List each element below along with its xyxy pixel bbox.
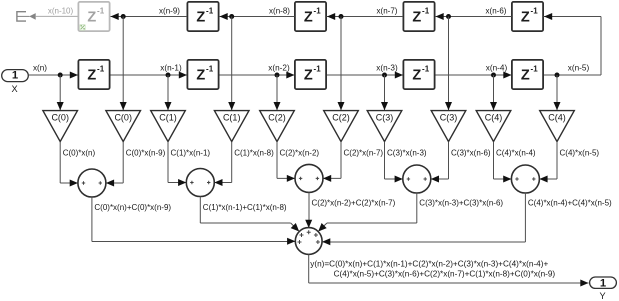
label C(0)*x(n-9)	[126, 149, 166, 158]
sum block S2 (C(1) pair)	[186, 169, 214, 197]
svg-text:x(n-1): x(n-1)	[160, 64, 182, 73]
svg-text:C(4)*x(n-4): C(4)*x(n-4)	[496, 149, 536, 158]
wire S5 -> big sum (right port)	[322, 193, 525, 245]
wire x(n): inport -> B-col1, junction	[29, 72, 78, 79]
wire C(0)*x(n-9) -> sum	[106, 142, 123, 187]
wire x(n-5): B-col5 output -> up riser -> T-col5 input	[544, 13, 602, 75]
svg-text:C(3): C(3)	[376, 112, 394, 122]
wire x(n-10) (grey)	[36, 15, 78, 17]
svg-text:Z: Z	[304, 9, 313, 25]
wire x(n-4): B-col4 -> B-col5, junction	[435, 72, 512, 79]
label x(n-9)	[159, 7, 180, 16]
svg-text:x(n-10): x(n-10)	[48, 7, 74, 16]
svg-text:C(4)*x(n-5): C(4)*x(n-5)	[560, 149, 600, 158]
svg-text:C(3)*x(n-6): C(3)*x(n-6)	[451, 149, 491, 158]
label C(2)*x(n-7)	[344, 149, 384, 158]
inport 1 (X)	[2, 70, 29, 82]
label x(n-3)	[376, 64, 398, 73]
sum block S5 (C(4) pair)	[511, 165, 539, 193]
svg-text:-1: -1	[314, 7, 322, 16]
unit delay Z^-1 (bottom row col 1)	[78, 60, 109, 89]
unit delay Z^-1 (bottom row col 2)	[187, 60, 218, 89]
big sum block (5 inputs)	[295, 228, 322, 255]
label y(n) line 1	[310, 260, 548, 269]
unit delay Z^-1 (bottom row col 3)	[295, 60, 326, 89]
svg-text:C(2): C(2)	[332, 112, 350, 122]
tap wire to gain C(0) (first)	[57, 75, 64, 110]
svg-text:-1: -1	[206, 65, 214, 74]
svg-text:C(1): C(1)	[223, 112, 241, 122]
svg-text:Z: Z	[196, 9, 205, 25]
wire x(n-1): B-col1 -> B-col2, junction	[110, 72, 187, 79]
label C(1)*x(n-1)+C(1)*x(n-8)	[203, 203, 287, 212]
label C(0)*x(n)+C(0)*x(n-9)	[94, 203, 171, 212]
wire C(4)*x(n-4) -> sum	[494, 142, 512, 183]
svg-text:Z: Z	[304, 67, 313, 83]
junction x(n-5)	[555, 73, 560, 78]
tap wire to gain C(1) (second)	[228, 17, 235, 111]
svg-text:Z: Z	[521, 9, 530, 25]
label x(n-8)	[269, 7, 290, 16]
unit delay Z^-1 (bottom row col 5)	[512, 60, 543, 89]
svg-text:Z: Z	[521, 67, 530, 83]
label x(n-7)	[377, 7, 398, 16]
svg-text:1: 1	[600, 277, 606, 289]
tap wire to gain C(3) (first)	[381, 75, 388, 110]
svg-text:C(1)*x(n-1): C(1)*x(n-1)	[171, 149, 211, 158]
gain C(3) (first)	[367, 111, 402, 142]
label C(4)*x(n-4)+C(4)*x(n-5)	[528, 198, 612, 207]
svg-text:C(1): C(1)	[159, 112, 177, 122]
svg-text:C(0)*x(n): C(0)*x(n)	[63, 149, 96, 158]
svg-text:C(0)*x(n-9): C(0)*x(n-9)	[126, 149, 166, 158]
wire S1 -> big sum (left port)	[92, 197, 295, 245]
label x(n-4)	[486, 64, 508, 73]
wire C(1)*x(n-1) -> sum	[168, 142, 186, 186]
svg-text:-1: -1	[97, 65, 105, 74]
wire S4 -> big sum (upper-right port)	[318, 193, 417, 232]
wire S3 -> big sum (top port)	[305, 192, 312, 228]
svg-text:Z: Z	[412, 67, 421, 83]
svg-text:x(n-8): x(n-8)	[269, 7, 290, 16]
svg-text:Z: Z	[87, 9, 96, 25]
svg-text:C(1)*x(n-1)+C(1)*x(n-8): C(1)*x(n-1)+C(1)*x(n-8)	[203, 203, 287, 212]
svg-text:Z: Z	[196, 67, 205, 83]
unit delay Z^-1 (top row col 5)	[512, 2, 543, 31]
label Y	[600, 291, 606, 301]
label C(4)*x(n-4)	[496, 149, 536, 158]
outport 1 (Y)	[590, 277, 617, 289]
gain C(2) (first)	[260, 111, 295, 142]
unit delay Z^-1 x(n-10) (commented out, grey)	[78, 2, 109, 31]
svg-text:y(n)=C(0)*x(n)+C(1)*x(n-1)+C(2: y(n)=C(0)*x(n)+C(1)*x(n-1)+C(2)*x(n-2)+C…	[310, 260, 548, 269]
svg-text:C(4): C(4)	[485, 112, 503, 122]
unit delay Z^-1 (top row col 3)	[295, 2, 326, 31]
svg-text:x(n-7): x(n-7)	[377, 7, 398, 16]
unit delay Z^-1 (top row col 2)	[187, 2, 218, 31]
svg-text:C(3): C(3)	[440, 112, 458, 122]
svg-text:-1: -1	[314, 65, 322, 74]
svg-text:-1: -1	[531, 65, 539, 74]
svg-text:C(4)*x(n-5)+C(3)*x(n-6)+C(2)*x: C(4)*x(n-5)+C(3)*x(n-6)+C(2)*x(n-7)+C(1)…	[334, 269, 556, 278]
svg-text:C(3)*x(n-3)+C(3)*x(n-6): C(3)*x(n-3)+C(3)*x(n-6)	[419, 198, 503, 207]
gain C(1) (second)	[214, 111, 249, 142]
label C(1)*x(n-1)	[171, 149, 211, 158]
unit delay Z^-1 (top row col 4)	[403, 2, 434, 31]
tap wire to gain C(0) (second)	[120, 17, 127, 111]
wire x(n-2): B-col2 -> B-col3, junction	[219, 72, 295, 79]
tap wire to gain C(4) (second)	[554, 75, 561, 110]
svg-text:Z: Z	[412, 9, 421, 25]
svg-text:x(n-6): x(n-6)	[486, 7, 507, 16]
gain C(3) (second)	[431, 111, 466, 142]
wire x(n-3): B-col3 -> B-col4, junction	[327, 72, 404, 79]
svg-text:C(4): C(4)	[548, 112, 566, 122]
wire C(3)*x(n-3) -> sum	[385, 142, 403, 183]
svg-text:1: 1	[12, 70, 18, 82]
label C(3)*x(n-6)	[451, 149, 491, 158]
svg-text:x(n-9): x(n-9)	[159, 7, 180, 16]
sum block S3 (C(2) pair)	[295, 164, 323, 192]
label y(n) line 2	[334, 269, 556, 278]
svg-text:x(n-2): x(n-2)	[268, 64, 290, 73]
gain C(0) (second)	[106, 111, 141, 142]
wire C(2)*x(n-2) -> sum	[277, 142, 295, 182]
unit delay Z^-1 (bottom row col 4)	[403, 60, 434, 89]
tap wire to gain C(2) (second)	[338, 17, 345, 111]
gain C(4) (second)	[540, 111, 575, 142]
svg-text:-1: -1	[422, 65, 430, 74]
svg-text:C(2)*x(n-2): C(2)*x(n-2)	[280, 149, 320, 158]
label C(3)*x(n-3)	[387, 149, 427, 158]
label x(n-2)	[268, 64, 290, 73]
svg-text:-1: -1	[206, 7, 214, 16]
tap wire to gain C(1) (first)	[165, 75, 172, 110]
wire x(n-8): T-col3 -> T-col2, junction	[219, 13, 295, 20]
gain C(4) (first)	[476, 111, 511, 142]
wire x(n-9): T-col2 -> grey block, junction	[111, 13, 188, 20]
label X	[12, 84, 18, 94]
svg-text:C(2)*x(n-7): C(2)*x(n-7)	[344, 149, 384, 158]
label x(n-1)	[160, 64, 182, 73]
label x(n-10) (grey)	[48, 7, 74, 16]
svg-text:C(0)*x(n)+C(0)*x(n-9): C(0)*x(n)+C(0)*x(n-9)	[94, 203, 171, 212]
label C(2)*x(n-2)	[280, 149, 320, 158]
wire y(n) -> outport	[309, 254, 589, 286]
label C(0)*x(n)	[63, 149, 96, 158]
wire C(1)*x(n-8) -> sum	[214, 142, 231, 186]
svg-text:C(4)*x(n-4)+C(4)*x(n-5): C(4)*x(n-4)+C(4)*x(n-5)	[528, 198, 612, 207]
label C(3)*x(n-3)+C(3)*x(n-6)	[419, 198, 503, 207]
svg-text:C(0): C(0)	[114, 112, 132, 122]
wire x(n-6): T-col5 -> T-col4, junction	[435, 13, 512, 20]
terminator (commented-out, grey)	[17, 12, 36, 21]
wire x(n-7): T-col4 -> T-col3, junction	[327, 13, 404, 20]
svg-text:C(2)*x(n-2)+C(2)*x(n-7): C(2)*x(n-2)+C(2)*x(n-7)	[312, 198, 396, 207]
svg-text:x(n): x(n)	[33, 64, 47, 73]
label C(1)*x(n-8)	[234, 149, 274, 158]
gain C(2) (second)	[324, 111, 359, 142]
svg-text:X: X	[12, 84, 18, 94]
sum block S1 (C(0) pair)	[78, 169, 106, 197]
svg-text:-1: -1	[97, 7, 105, 16]
gain C(0) (first)	[43, 111, 78, 142]
label C(4)*x(n-5)	[560, 149, 600, 158]
gain C(1) (first)	[151, 111, 186, 142]
svg-text:x(n-4): x(n-4)	[486, 64, 508, 73]
svg-text:C(2): C(2)	[268, 112, 286, 122]
svg-text:x(n-3): x(n-3)	[376, 64, 398, 73]
label x(n-5)	[568, 64, 590, 73]
tap wire to gain C(3) (second)	[445, 17, 452, 111]
tap wire to gain C(4) (first)	[490, 75, 497, 110]
svg-text:C(1)*x(n-8): C(1)*x(n-8)	[234, 149, 274, 158]
wire C(3)*x(n-6) -> sum	[431, 142, 449, 183]
wire C(4)*x(n-5) -> sum	[539, 142, 557, 183]
wire C(2)*x(n-7) -> sum	[323, 142, 341, 182]
label C(2)*x(n-2)+C(2)*x(n-7)	[312, 198, 396, 207]
svg-text:C(3)*x(n-3): C(3)*x(n-3)	[387, 149, 427, 158]
wire C(0)*x(n) -> sum	[60, 142, 78, 187]
svg-text:-1: -1	[422, 7, 430, 16]
label x(n)	[33, 64, 47, 73]
svg-text:x(n-5): x(n-5)	[568, 64, 590, 73]
sum block S4 (C(3) pair)	[403, 165, 431, 193]
label x(n-6)	[486, 7, 507, 16]
svg-text:-1: -1	[531, 7, 539, 16]
wire S2 -> big sum (upper-left port)	[200, 197, 299, 232]
svg-text:Z: Z	[87, 67, 96, 83]
svg-text:Y: Y	[600, 291, 606, 301]
tap wire to gain C(2) (first)	[274, 75, 281, 110]
svg-text:C(0): C(0)	[51, 112, 69, 122]
